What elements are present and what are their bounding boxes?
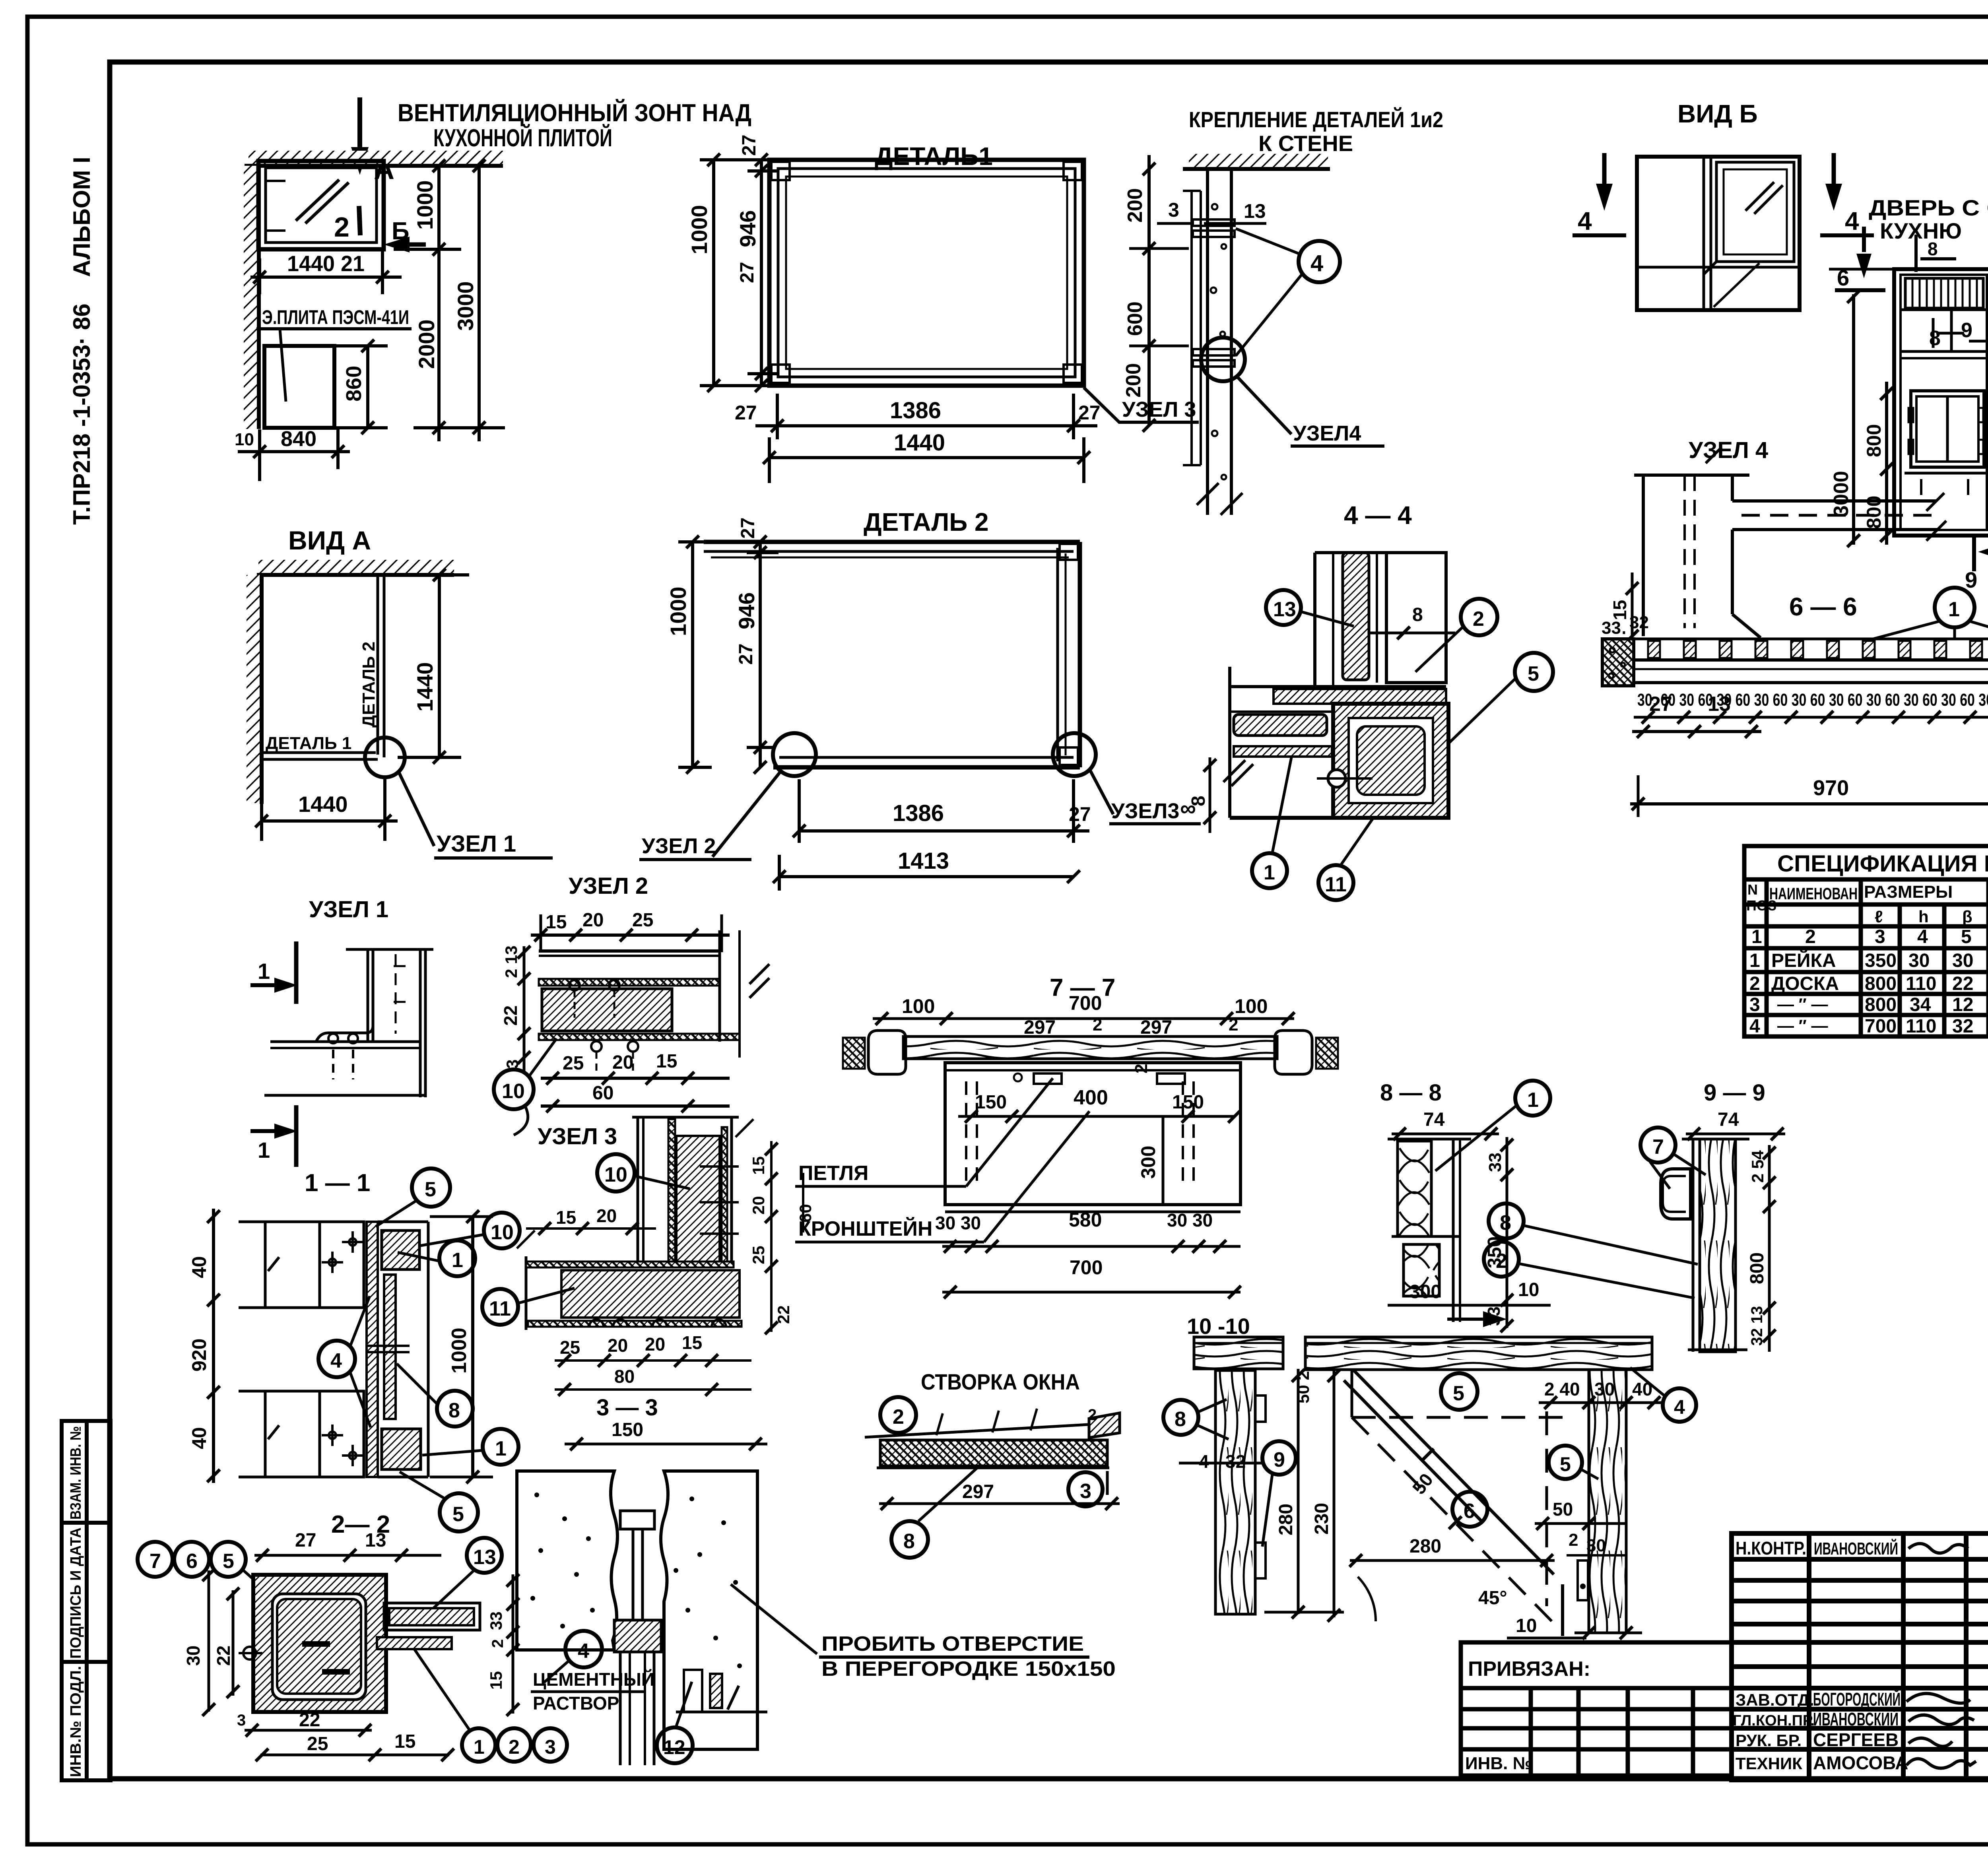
node 1-1 bolt crosses: [322, 1231, 363, 1466]
node stove plan rect: [264, 346, 334, 428]
node circle 5 (1-1 bottom): [440, 1493, 478, 1531]
node left label strip: [62, 1421, 111, 1780]
svg-text:11: 11: [1325, 873, 1347, 896]
svg-text:5: 5: [425, 1178, 436, 1201]
svg-text:30․ 60 30 60 30 60 30 60 30 60: 30․ 60 30 60 30 60 30 60 30 60 30 60 30 …: [1637, 690, 1988, 710]
svg-text:2000: 2000: [414, 319, 439, 369]
svg-text:15: 15: [682, 1332, 702, 1353]
svg-text:4: 4: [1845, 207, 1859, 235]
node circle 11 (узел 3): [482, 1289, 518, 1325]
node узел 1 drawing: [264, 949, 433, 1097]
svg-text:100: 100: [902, 995, 935, 1017]
svg-text:2: 2: [1132, 1064, 1151, 1073]
svg-text:8: 8: [1928, 239, 1938, 259]
node circle 1 (4-4): [1252, 853, 1287, 888]
wire dims 280/230 (10-10): [1297, 1369, 1300, 1614]
wire detail 1 left dims: [700, 160, 779, 386]
svg-text:150: 150: [975, 1092, 1007, 1113]
wire 8-8 right dims: [1506, 1137, 1508, 1328]
svg-text:ИНВ. №: ИНВ. №: [1465, 1754, 1532, 1773]
svg-text:25: 25: [632, 910, 653, 931]
svg-text:60: 60: [592, 1083, 613, 1104]
svg-text:1: 1: [1749, 950, 1760, 971]
svg-text:280: 280: [1409, 1536, 1441, 1557]
svg-text:400: 400: [1074, 1086, 1108, 1109]
svg-text:УЗЕЛ3: УЗЕЛ3: [1111, 799, 1179, 823]
svg-text:700: 700: [1865, 1016, 1897, 1037]
node circle 2 (sash): [880, 1397, 916, 1433]
svg-text:15: 15: [656, 1051, 677, 1072]
node circle 8 (sash): [891, 1521, 928, 1558]
svg-text:40: 40: [188, 1427, 210, 1449]
svg-text:ℓ: ℓ: [1875, 907, 1883, 926]
svg-text:2 54: 2 54: [1748, 1150, 1767, 1183]
svg-text:1: 1: [1751, 926, 1762, 947]
svg-text:5: 5: [223, 1550, 234, 1573]
svg-text:1: 1: [258, 959, 270, 984]
svg-text:920: 920: [188, 1339, 210, 1372]
wire 1-1 dim 1000: [471, 1217, 474, 1477]
node frame piece (3-3 bottom right): [676, 1670, 767, 1712]
svg-text:22: 22: [213, 1646, 234, 1666]
svg-text:600: 600: [1124, 301, 1147, 336]
wire 2-2 right dims: [512, 1574, 514, 1714]
svg-text:БОГОРОДСКИЙ: БОГОРОДСКИЙ: [1813, 1689, 1901, 1710]
node узел 4 column: [1634, 447, 1946, 638]
svg-text:13: 13: [1273, 598, 1296, 621]
svg-text:33․: 33․: [1602, 618, 1627, 638]
svg-text:297: 297: [962, 1481, 994, 1502]
wire detail 1 bottom dims: [755, 394, 1097, 483]
node узел 2 leader (detail 2): [712, 772, 780, 857]
svg-text:β: β: [1962, 907, 1972, 926]
wire wall break marks: [1197, 483, 1219, 505]
svg-text:30: 30: [1908, 950, 1930, 971]
svg-text:8: 8: [1188, 796, 1209, 806]
svg-text:УЗЕЛ 3: УЗЕЛ 3: [538, 1124, 617, 1149]
svg-text:74: 74: [1718, 1109, 1739, 1130]
svg-text:13: 13: [1244, 200, 1266, 222]
svg-text:2: 2: [1749, 973, 1760, 994]
node circle 10 (узел 3): [597, 1154, 635, 1192]
wire узел 3 right dims: [770, 1141, 773, 1332]
svg-text:800: 800: [1747, 1252, 1768, 1284]
svg-text:27: 27: [295, 1530, 316, 1551]
svg-text:15: 15: [556, 1207, 576, 1228]
svg-text:НАИМЕНОВАН: НАИМЕНОВАН: [1769, 884, 1858, 903]
svg-text:860: 860: [342, 366, 366, 402]
svg-text:1: 1: [1264, 861, 1275, 884]
svg-text:110: 110: [1906, 973, 1936, 994]
svg-text:25: 25: [563, 1053, 584, 1074]
node concrete dots (attachment wall): [1211, 204, 1226, 479]
node cement detail right block: [661, 1471, 757, 1749]
svg-text:1000: 1000: [687, 205, 712, 254]
node circle 9 (10-10): [1262, 1441, 1296, 1475]
svg-text:20: 20: [582, 910, 604, 931]
svg-text:Т.ПР218 -1-0353· 86 АЛЬБОМ: Т.ПР218 -1-0353· 86 АЛЬБОМ I: [68, 157, 95, 525]
svg-text:ИВАНОВСКИЙ: ИВАНОВСКИЙ: [1813, 1709, 1899, 1729]
svg-text:150: 150: [612, 1419, 643, 1440]
svg-text:УЗЕЛ 1: УЗЕЛ 1: [309, 897, 388, 922]
svg-text:22: 22: [299, 1710, 320, 1731]
node view Б square: [1637, 157, 1800, 310]
node узел 3 column: [632, 1117, 753, 1268]
svg-text:— ″ —: — ″ —: [1777, 1016, 1828, 1035]
svg-text:30 30: 30 30: [935, 1213, 981, 1233]
svg-text:110: 110: [1906, 1016, 1936, 1037]
svg-text:4: 4: [330, 1349, 342, 1372]
svg-text:1: 1: [452, 1249, 463, 1272]
svg-text:2: 2: [1093, 1015, 1102, 1034]
svg-text:1: 1: [1527, 1089, 1539, 1112]
svg-text:8: 8: [1412, 604, 1423, 625]
svg-text:КУХОННОЙ ПЛИТОЙ: КУХОННОЙ ПЛИТОЙ: [433, 124, 612, 152]
node section mark 6 left (door): [1829, 227, 1894, 290]
svg-text:12: 12: [1952, 994, 1973, 1015]
node 7-7 right jamb: [1275, 1031, 1338, 1074]
node узел 3 horizontal part: [517, 1230, 742, 1330]
svg-text:ДЕТАЛЬ1: ДЕТАЛЬ1: [875, 142, 993, 171]
svg-text:4 — 4: 4 — 4: [1344, 501, 1412, 530]
svg-text:1413: 1413: [898, 848, 949, 874]
wire dim 1000/2000 vertical: [394, 164, 505, 441]
svg-text:13: 13: [365, 1530, 386, 1551]
node узел 1 leader (view A): [398, 771, 434, 846]
wire узел 2 left dims: [523, 946, 526, 1073]
svg-text:3: 3: [1875, 926, 1885, 947]
node узел 3 leader (detail 1): [1084, 388, 1199, 422]
svg-text:2 13: 2 13: [502, 945, 520, 978]
svg-text:2: 2: [1805, 926, 1816, 947]
node circle 5 (4-4): [1515, 653, 1553, 691]
svg-text:15: 15: [749, 1156, 768, 1175]
node section 9-9 drawing: [1661, 1139, 1749, 1352]
wire dim 840: [238, 450, 350, 453]
svg-text:4: 4: [1917, 926, 1928, 947]
node circles 7 6 5 (2-2): [138, 1542, 173, 1577]
svg-text:ВИД А: ВИД А: [288, 526, 371, 555]
svg-text:РАЗМЕРЫ: РАЗМЕРЫ: [1864, 882, 1953, 902]
node 7-7 left jamb: [843, 1031, 906, 1074]
svg-text:297: 297: [1024, 1017, 1056, 1038]
svg-text:4: 4: [578, 1640, 589, 1663]
svg-text:5: 5: [1961, 926, 1972, 947]
svg-text:840: 840: [281, 427, 316, 451]
node 10-10 right slab: [1305, 1337, 1652, 1370]
wire dim 1440/21 (plan bottom): [250, 249, 402, 294]
svg-text:1000: 1000: [412, 180, 437, 230]
svg-text:30: 30: [1952, 950, 1973, 971]
svg-text:8: 8: [903, 1530, 915, 1553]
svg-text:2: 2: [1229, 1015, 1238, 1034]
svg-text:ТЕХНИК: ТЕХНИК: [1736, 1754, 1802, 1773]
svg-text:10 -10: 10 -10: [1187, 1314, 1250, 1339]
node section mark 1-1 (узел 1): [250, 941, 297, 1004]
svg-text:27: 27: [737, 262, 758, 283]
svg-text:27: 27: [1078, 402, 1101, 424]
wire 2-2 left dims: [208, 1570, 210, 1712]
node circle 10 (узел 2): [494, 1069, 534, 1109]
node circle 13 (2-2): [467, 1538, 502, 1573]
svg-text:10: 10: [604, 1163, 627, 1186]
svg-text:30 30: 30 30: [1167, 1210, 1213, 1230]
svg-text:22: 22: [1952, 973, 1973, 994]
node door leaf elevation: [1894, 269, 1988, 536]
svg-text:10: 10: [1516, 1615, 1537, 1636]
svg-text:1440: 1440: [412, 662, 437, 712]
node bolt (4-4): [1328, 770, 1345, 787]
node узел 1 circle (view A): [365, 738, 405, 777]
wire dim 1440 vertical (view A): [438, 575, 441, 757]
svg-text:350: 350: [1865, 950, 1897, 971]
svg-text:9: 9: [1965, 567, 1977, 592]
svg-text:ПЕТЛЯ: ПЕТЛЯ: [798, 1162, 868, 1185]
node 10-10 left post: [1215, 1370, 1255, 1614]
node 1-1 channel assembly: [367, 1222, 428, 1477]
svg-text:970: 970: [1813, 776, 1849, 800]
svg-text:УЗЕЛ 1: УЗЕЛ 1: [437, 831, 516, 857]
svg-text:150: 150: [1172, 1092, 1204, 1113]
node detail1 strip (view A): [262, 751, 376, 754]
svg-text:15: 15: [1609, 600, 1630, 620]
svg-text:1 — 1: 1 — 1: [305, 1169, 370, 1197]
svg-text:ПОДПИСЬ И ДАТА: ПОДПИСЬ И ДАТА: [68, 1527, 84, 1659]
wire wall with hatch (plan): [244, 166, 259, 429]
node привязан box: [1461, 1642, 1732, 1776]
svg-text:700: 700: [1069, 992, 1102, 1014]
node circle 6 (10-10): [1452, 1492, 1487, 1527]
node window sash drawing: [865, 1409, 1120, 1495]
svg-text:7: 7: [149, 1550, 161, 1573]
svg-text:8: 8: [1175, 1408, 1186, 1431]
node circle 11 (4-4): [1318, 865, 1353, 900]
svg-text:1: 1: [495, 1437, 507, 1460]
svg-text:22: 22: [774, 1305, 793, 1324]
node circle 5 (1-1 top): [412, 1168, 450, 1207]
node wall section (attachment): [1183, 169, 1231, 515]
svg-text:1386: 1386: [893, 800, 944, 826]
svg-text:800: 800: [1865, 973, 1897, 994]
svg-text:20: 20: [749, 1196, 768, 1215]
svg-text:УЗЕЛ 4: УЗЕЛ 4: [1689, 437, 1768, 463]
svg-text:РАСТВОР: РАСТВОР: [533, 1693, 619, 1714]
svg-text:27: 27: [736, 644, 757, 665]
svg-text:12: 12: [663, 1736, 685, 1758]
svg-text:33: 33: [487, 1611, 505, 1630]
svg-text:2: 2: [334, 212, 349, 243]
node specification table (дверь с окном в кухню): [1744, 846, 1988, 1036]
svg-text:N: N: [1747, 881, 1758, 898]
node 10-10 room dashed outline: [1344, 1370, 1565, 1622]
svg-text:800: 800: [1865, 994, 1897, 1015]
svg-text:8: 8: [1500, 1211, 1511, 1234]
svg-text:6: 6: [186, 1550, 198, 1573]
wire door left dims: [1885, 382, 1888, 545]
svg-text:Э.ПЛИТА ПЭСМ-41И: Э.ПЛИТА ПЭСМ-41И: [262, 306, 409, 328]
node узел 2 circle (detail 2): [773, 733, 816, 776]
svg-text:2: 2: [1496, 1250, 1507, 1273]
svg-text:РЕЙКА: РЕЙКА: [1771, 949, 1836, 971]
svg-text:8: 8: [448, 1399, 460, 1422]
wire detail 2 left dims: [678, 542, 779, 767]
svg-text:20: 20: [608, 1335, 628, 1356]
svg-text:20: 20: [645, 1334, 665, 1355]
svg-text:5: 5: [452, 1503, 464, 1526]
wire ceiling with hatch (plan): [248, 151, 503, 166]
wire dim 1440 horizontal (view A): [262, 819, 398, 823]
svg-text:1440: 1440: [894, 430, 945, 456]
svg-text:4: 4: [1310, 250, 1323, 276]
svg-text:4: 4: [1674, 1396, 1685, 1418]
node circle 4 (3-3): [565, 1631, 602, 1667]
svg-text:3: 3: [503, 1060, 522, 1069]
svg-text:7: 7: [1652, 1135, 1664, 1159]
node circle 1 (1-1 top): [439, 1240, 475, 1276]
node circle 10 (1-1): [484, 1213, 520, 1248]
svg-text:2: 2: [489, 1639, 507, 1648]
node circles 1 2 3 (2-2 bottom): [462, 1728, 495, 1762]
svg-text:50: 50: [1553, 1499, 1573, 1520]
svg-text:3 — 3: 3 — 3: [596, 1395, 658, 1421]
svg-text:h: h: [1918, 907, 1929, 926]
node circle 12 (3-3): [657, 1727, 693, 1763]
svg-text:ДЕТАЛЬ 1: ДЕТАЛЬ 1: [266, 734, 351, 753]
svg-text:ДЕТАЛЬ 2: ДЕТАЛЬ 2: [864, 508, 989, 536]
svg-text:РУК. БР.: РУК. БР.: [1736, 1731, 1802, 1750]
svg-text:700: 700: [1070, 1256, 1103, 1279]
svg-text:УЗЕЛ 3: УЗЕЛ 3: [1122, 398, 1196, 421]
svg-text:2: 2: [1088, 1406, 1097, 1424]
node detail 2 frame: [704, 542, 1080, 767]
wire dim 8 (4-4 left): [1209, 757, 1211, 833]
svg-text:30: 30: [1586, 1536, 1606, 1555]
svg-text:АМОСОВА: АМОСОВА: [1813, 1753, 1908, 1773]
node узел 2 body: [539, 930, 769, 1073]
node узел 3 leader (detail 2): [1090, 771, 1113, 814]
svg-text:4: 4: [1749, 1016, 1760, 1037]
svg-text:9: 9: [1274, 1448, 1285, 1471]
svg-text:10: 10: [491, 1221, 514, 1244]
node circle 13 (4-4): [1266, 590, 1301, 625]
node circle 8 (mid): [1489, 1203, 1524, 1238]
svg-text:3000: 3000: [453, 281, 478, 331]
svg-text:ГЛ.КОН.ПР.: ГЛ.КОН.ПР.: [1733, 1712, 1815, 1729]
svg-text:33: 33: [1485, 1153, 1505, 1172]
svg-text:10: 10: [502, 1080, 525, 1103]
node circle 8 (10-10): [1163, 1400, 1198, 1435]
svg-text:297: 297: [1140, 1017, 1172, 1038]
node section marks 4 (view Б): [1573, 153, 1626, 235]
svg-text:230: 230: [1311, 1503, 1332, 1535]
node section 4-4 corner channel: [1333, 704, 1448, 818]
node section 8-8 drawing: [1388, 1139, 1471, 1322]
svg-text:25: 25: [749, 1246, 768, 1264]
svg-text:8: 8: [1929, 327, 1941, 350]
node circle 1 (1-1 bottom): [483, 1429, 518, 1465]
svg-text:6: 6: [1464, 1500, 1475, 1523]
svg-text:1440 21: 1440 21: [287, 251, 365, 276]
svg-text:ВЗАМ. ИНВ. №: ВЗАМ. ИНВ. №: [68, 1426, 84, 1520]
svg-text:280: 280: [1276, 1504, 1297, 1535]
svg-text:2: 2: [893, 1405, 904, 1428]
svg-text:УЗЕЛ4: УЗЕЛ4: [1293, 421, 1361, 445]
node узел 4 circle (attachment): [1201, 338, 1245, 381]
node signature scribbles: [1906, 1544, 1976, 1768]
wire dim 860: [366, 346, 369, 428]
svg-text:1: 1: [474, 1736, 485, 1758]
svg-text:ИВАНОВСКИЙ: ИВАНОВСКИЙ: [1814, 1538, 1898, 1558]
svg-text:200: 200: [1124, 188, 1147, 223]
svg-text:— ″ —: — ″ —: [1777, 995, 1828, 1013]
svg-text:32: 32: [1952, 1016, 1973, 1037]
svg-text:1000: 1000: [448, 1328, 471, 1374]
node circle 2 (4-4): [1461, 599, 1497, 635]
svg-text:32 13: 32 13: [1748, 1306, 1766, 1346]
node circle 3 (sash): [1068, 1472, 1103, 1506]
svg-text:2: 2: [1569, 1530, 1578, 1550]
svg-text:15: 15: [546, 912, 567, 933]
svg-text:ВИД Б: ВИД Б: [1677, 99, 1758, 128]
svg-text:ДОСКА: ДОСКА: [1771, 973, 1839, 994]
node circle 1 (8-8): [1515, 1081, 1550, 1116]
node 7-7 top beam: [903, 1036, 1277, 1059]
svg-text:15: 15: [487, 1671, 505, 1690]
wire dim 8 (4-4 top): [1370, 632, 1455, 635]
svg-text:ИНВ.№ ПОДЛ.: ИНВ.№ ПОДЛ.: [68, 1666, 84, 1777]
node section mark 9 bottom (door): [1972, 536, 1976, 571]
svg-text:27: 27: [1069, 803, 1091, 825]
svg-text:34: 34: [1910, 994, 1931, 1015]
svg-text:5: 5: [1560, 1453, 1571, 1475]
svg-text:2: 2: [509, 1736, 520, 1758]
svg-text:1000: 1000: [666, 586, 691, 636]
svg-text:10: 10: [235, 430, 254, 449]
svg-text:9 — 9: 9 — 9: [1704, 1080, 1765, 1106]
wire wall hatch (view A): [247, 575, 262, 803]
node 2-2 channel section: [253, 1575, 386, 1712]
wire ceiling hatch (attachment): [1189, 154, 1328, 169]
svg-text:100: 100: [1235, 995, 1268, 1017]
node circle 4 (10-10 right): [1663, 1388, 1696, 1422]
svg-text:30: 30: [1594, 1379, 1615, 1399]
svg-text:8 — 8: 8 — 8: [1380, 1080, 1442, 1106]
node circle 5 (10-10 right): [1549, 1446, 1582, 1479]
svg-text:4: 4: [1578, 207, 1592, 235]
svg-text:3: 3: [1080, 1480, 1091, 1503]
node bolts (attachment): [1193, 219, 1235, 367]
svg-text:3000: 3000: [1830, 471, 1853, 517]
svg-text:800: 800: [1863, 424, 1885, 457]
svg-text:13: 13: [473, 1546, 496, 1569]
node cement detail left block: [517, 1471, 617, 1650]
svg-text:3: 3: [1168, 199, 1179, 221]
node circle 7 (9-9): [1640, 1128, 1675, 1163]
node 2-2 right bar: [239, 1603, 480, 1659]
wire 1-1 left dims: [212, 1209, 215, 1483]
svg-text:580: 580: [1069, 1209, 1102, 1231]
svg-text:К СТЕНЕ: К СТЕНЕ: [1258, 131, 1353, 156]
node 7-7 door leaf plan: [945, 1063, 1241, 1212]
svg-text:80: 80: [614, 1366, 635, 1387]
node circle 4 (attachment): [1299, 241, 1340, 282]
node circle 5 (10-10 left): [1441, 1373, 1477, 1410]
svg-text:КРЕПЛЕНИЕ ДЕТАЛЕЙ 1и2: КРЕПЛЕНИЕ ДЕТАЛЕЙ 1и2: [1189, 107, 1443, 132]
svg-text:ДВЕРЬ С ОКНОМ В: ДВЕРЬ С ОКНОМ В: [1869, 195, 1988, 220]
svg-text:СТВОРКА ОКНА: СТВОРКА ОКНА: [921, 1369, 1080, 1394]
node section 4-4 horizontal part: [1230, 667, 1448, 818]
svg-text:СПЕЦИФИКАЦИЯ МАТЕРИАЛА НА ДВ: СПЕЦИФИКАЦИЯ МАТЕРИАЛА НА ДВЕРЬ С ОКНОМ …: [1777, 851, 1988, 877]
